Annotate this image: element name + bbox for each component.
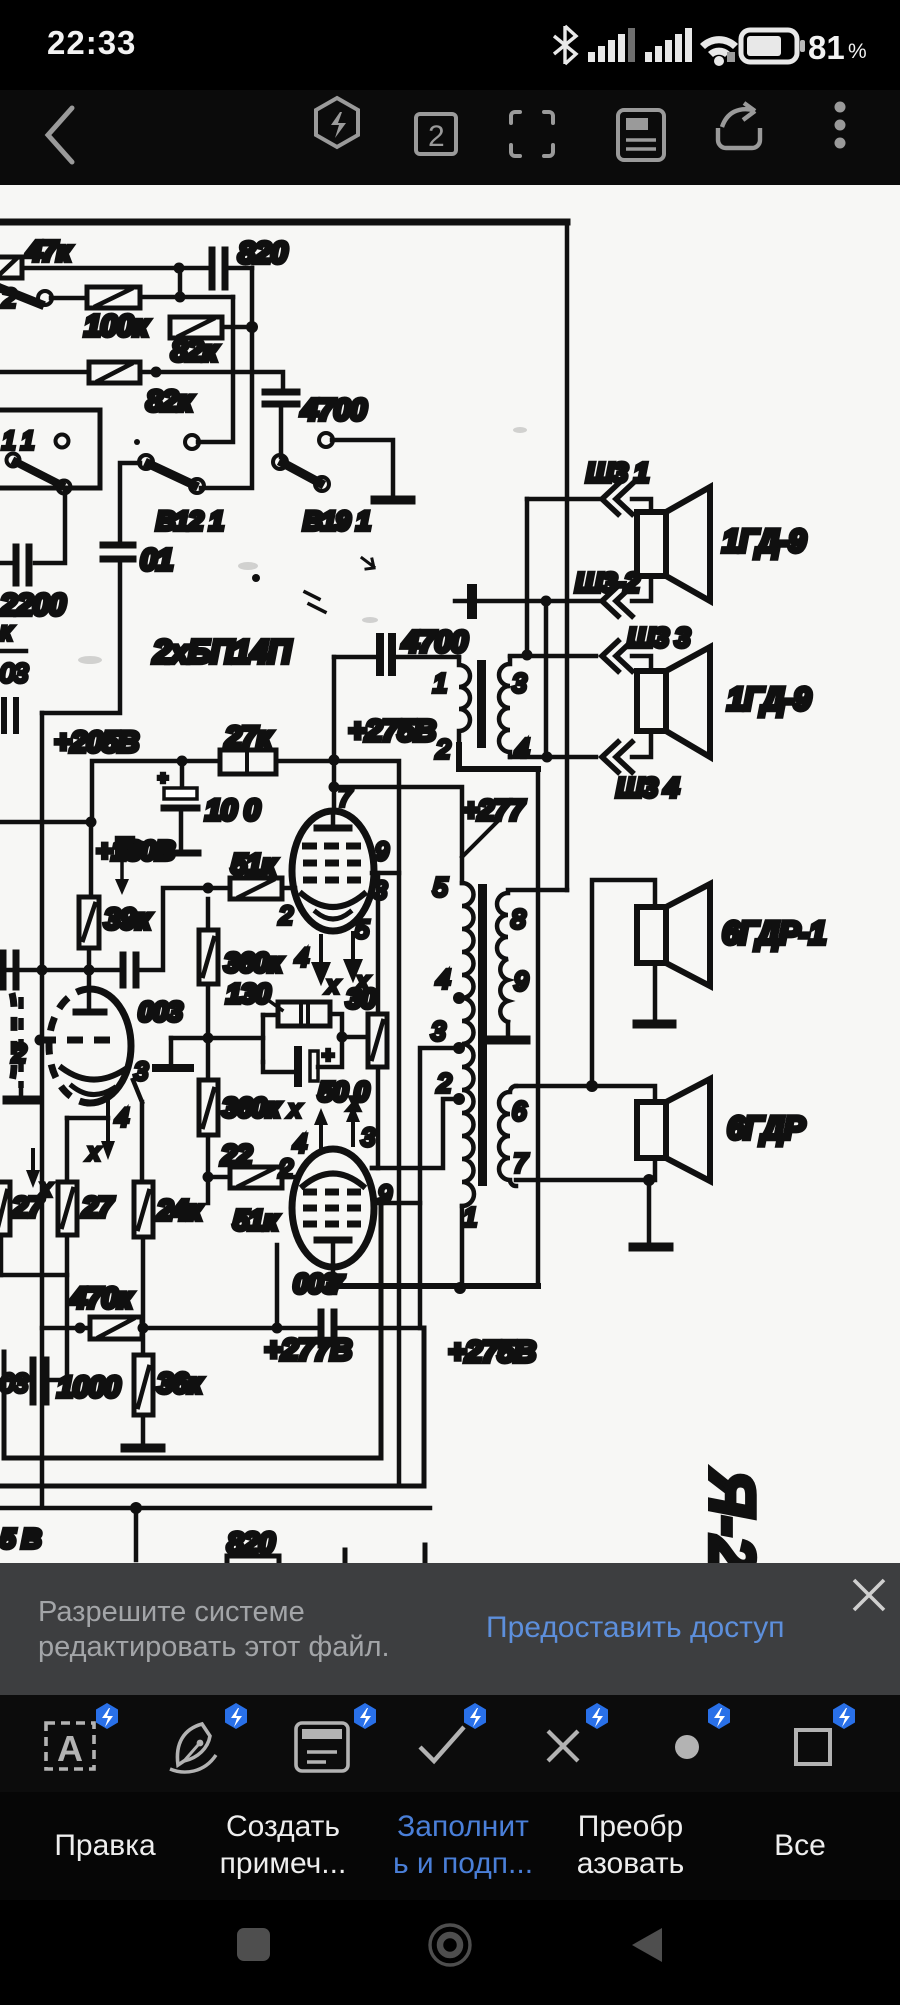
wire pin9 V2 <box>375 1201 420 1206</box>
wire B12 to C01 <box>120 463 140 541</box>
svg-text:5 В: 5 В <box>0 1523 41 1554</box>
svg-text:3: 3 <box>431 1016 446 1046</box>
svg-text:x: x <box>288 1096 302 1122</box>
node junction <box>174 263 185 274</box>
wire link 268-297 <box>178 268 183 297</box>
svg-text:8: 8 <box>511 904 526 934</box>
wire C100 top <box>180 761 185 789</box>
wire 6 top <box>516 1086 655 1102</box>
resistor R 360k first <box>199 930 218 984</box>
anode bar V1 <box>317 825 349 832</box>
T2 secondary 8-9 <box>497 893 508 1022</box>
svg-text:39к: 39к <box>104 903 152 936</box>
wire to transformer secondary 8 top <box>508 888 567 893</box>
wire 100k to corner <box>140 295 233 300</box>
terminal circle 100k input <box>38 291 52 305</box>
capacitor C 130 trimmer <box>261 1015 266 1062</box>
wire C100 bottom to bar <box>179 808 184 849</box>
svg-text:10 0: 10 0 <box>205 794 261 827</box>
cathode arcs V3 <box>62 1068 124 1080</box>
svg-text:51к: 51к <box>231 849 277 881</box>
capacitor C 100 electrolytic <box>166 790 195 799</box>
wire 39k top <box>89 822 94 897</box>
pointer <box>268 1000 282 1010</box>
capacitor C 820 <box>212 250 225 287</box>
svg-text:2: 2 <box>1 283 17 313</box>
wire 4700b net vertical <box>332 657 337 787</box>
filament arrow V4 <box>31 1150 35 1178</box>
svg-text:470к: 470к <box>69 1282 134 1315</box>
wire C820 right <box>228 266 252 271</box>
wire Sh3-2/4 riser <box>544 601 549 757</box>
svg-text:003: 003 <box>138 996 183 1027</box>
svg-text:4: 4 <box>295 944 308 972</box>
capacitor stub left edge <box>4 700 16 731</box>
svg-text:1 1: 1 1 <box>2 427 34 455</box>
wire 24k bottom <box>141 1237 146 1355</box>
wire V3 filament row <box>67 1116 108 1121</box>
svg-text:2хБП14П: 2хБП14П <box>152 633 293 670</box>
wire stub left edge <box>0 649 26 654</box>
svg-text:x: x <box>87 1139 101 1165</box>
svg-text:Я-2: Я-2 <box>696 1468 768 1563</box>
wire bottom bus <box>330 1283 538 1289</box>
switch lever top-left <box>0 288 40 304</box>
svg-text:27: 27 <box>81 1192 115 1224</box>
svg-text:5: 5 <box>433 872 448 902</box>
wire 27 bottom row <box>0 1235 67 1275</box>
wire long vertical continues <box>397 1286 402 1486</box>
svg-text:130: 130 <box>226 978 271 1009</box>
pointer arrow <box>120 862 124 884</box>
wire 6GDR-1 loop <box>592 880 655 1086</box>
svg-text:4700: 4700 <box>300 392 367 427</box>
output transformer T2 primary <box>462 883 474 1206</box>
svg-text:1: 1 <box>433 668 446 698</box>
tube V4 half cut <box>11 993 14 1085</box>
node pin7 <box>329 782 340 793</box>
wire 82k lower net <box>0 370 89 375</box>
svg-text:Ш3 3: Ш3 3 <box>627 622 691 653</box>
ground <box>375 496 411 505</box>
resistor R 27k <box>220 750 276 774</box>
wire V3 anode up <box>87 970 92 1012</box>
node <box>329 755 340 766</box>
svg-text:50 0: 50 0 <box>318 1076 370 1107</box>
wire T1 primary bottom <box>459 745 538 769</box>
grid dashed V3 <box>40 1037 118 1044</box>
terminal circle to ground <box>319 433 333 447</box>
svg-text:+275В: +275В <box>348 713 436 748</box>
cathode arc V2 <box>303 1174 363 1187</box>
resistor R 39k <box>79 897 99 948</box>
svg-text:4: 4 <box>293 1130 306 1158</box>
svg-text:6ГДР-1: 6ГДР-1 <box>722 915 826 951</box>
svg-text:82к: 82к <box>171 335 219 368</box>
wire T1 sec top to Sh3-3 <box>510 654 596 659</box>
resistor R 30 <box>368 1014 387 1067</box>
svg-text:3: 3 <box>361 1124 375 1152</box>
wire top bus <box>0 219 567 226</box>
svg-text:2: 2 <box>436 1068 452 1098</box>
pin 7 line V1 <box>333 787 334 828</box>
svg-text:2: 2 <box>428 120 445 153</box>
svg-text:2: 2 <box>435 734 451 764</box>
svg-text:+275В: +275В <box>448 1334 536 1369</box>
wire RC left node <box>171 1036 263 1041</box>
wire LS4 node to ground <box>647 1180 652 1243</box>
speaker LS2 1GD-9 <box>637 671 666 731</box>
filament arrows V2 <box>321 1113 353 1148</box>
svg-text:В12 1: В12 1 <box>156 506 223 536</box>
wire 36k to ground <box>141 1415 146 1444</box>
ground T2 sec <box>490 1036 526 1045</box>
wire 9 to ground <box>506 1022 511 1036</box>
tube V2 output pentode <box>292 1149 374 1267</box>
node C100 <box>177 756 188 767</box>
svg-text:5: 5 <box>355 916 369 944</box>
speaker LS3 6GDR-1 <box>637 907 666 963</box>
svg-text:%: % <box>848 40 867 63</box>
svg-text:82к: 82к <box>146 385 194 418</box>
resistor R 27 second <box>58 1182 77 1235</box>
wire 39k bottom <box>87 948 92 970</box>
connector Sh3 1 <box>527 497 600 502</box>
wire 27k right <box>276 759 334 764</box>
capacitor C 01 <box>103 545 133 559</box>
svg-text:6: 6 <box>512 1096 527 1126</box>
svg-text:+: + <box>158 770 167 787</box>
anode bar V3 <box>76 1009 104 1016</box>
T2 secondary 6-7 <box>499 1086 516 1186</box>
resistor R 82k upper <box>170 317 222 338</box>
wire C4700 to B19 <box>279 407 284 457</box>
T2 primary taps <box>453 992 465 1004</box>
svg-text:Ш3 1: Ш3 1 <box>586 457 649 488</box>
svg-text:Ш3-2: Ш3-2 <box>575 567 640 598</box>
svg-text:2: 2 <box>278 1155 293 1183</box>
chassis box bottom <box>4 1200 381 1458</box>
wire LS3 to ground <box>653 963 658 1020</box>
wire tap2 to V2 grid circuit <box>420 1048 459 1328</box>
wire V2 pin7 to bus <box>331 1240 336 1286</box>
connector Sh3 3 <box>602 641 632 671</box>
wire T1 sec bottom to Sh3-4 <box>510 755 596 760</box>
wire left bus vertical <box>40 713 45 1506</box>
resistor R 51k <box>230 878 282 899</box>
svg-text:A: A <box>57 1728 83 1769</box>
wire right vertical from top bus <box>565 222 570 890</box>
svg-text:360к: 360к <box>222 1092 282 1123</box>
svg-text:4: 4 <box>436 964 450 994</box>
filament arrow V3 <box>106 1096 110 1130</box>
svg-text:4700: 4700 <box>401 624 468 659</box>
wire 470k net <box>42 1326 90 1331</box>
svg-text:7: 7 <box>513 1148 529 1178</box>
svg-text:360к: 360к <box>224 947 284 978</box>
svg-text:x: x <box>326 972 340 998</box>
T2 core <box>478 884 487 1186</box>
svg-text:+205В: +205В <box>54 726 139 759</box>
wire C01 down to left bus <box>42 562 120 713</box>
capacitor C 003 <box>123 955 136 985</box>
T1 secondary <box>499 657 510 757</box>
T1 core <box>477 660 486 748</box>
svg-text:1ГД-9: 1ГД-9 <box>727 681 811 717</box>
svg-text:820: 820 <box>238 235 287 270</box>
wire to resistor 100k <box>51 296 87 301</box>
node <box>175 292 186 303</box>
svg-text:30: 30 <box>346 983 377 1014</box>
resistor R 47k (cut at left edge) <box>0 257 22 278</box>
wire Sh3-1 riser <box>525 499 530 655</box>
wire 47k to C820 <box>22 266 208 271</box>
capacitor C 4700 second <box>334 655 375 660</box>
resistor R 100k <box>87 287 140 308</box>
node on vertical <box>246 321 258 333</box>
node <box>151 367 162 378</box>
interstage transformer T1 primary <box>459 657 470 745</box>
capacitor C 4700 coupling <box>265 392 297 404</box>
wire 360k-1 <box>206 899 211 1080</box>
wire 82k upper to node <box>222 325 252 330</box>
wire +205V rail <box>0 761 220 822</box>
svg-text:003: 003 <box>293 1268 338 1299</box>
wire V1 anode right <box>372 871 399 876</box>
speaker LS1 1GD-9 <box>637 512 666 576</box>
capacitor C 003 second <box>321 1312 334 1345</box>
svg-text:+: + <box>322 1045 333 1067</box>
noise specks <box>134 439 140 445</box>
resistor 820 bottom cut <box>227 1556 279 1576</box>
terminal circle in box <box>56 435 69 448</box>
connector Sh3 4 <box>602 742 632 772</box>
svg-text:Ш3 4: Ш3 4 <box>616 772 680 803</box>
resistor R 51k second <box>230 1167 282 1188</box>
resistor R 36k <box>134 1355 153 1415</box>
wire terminal to ground <box>332 440 393 496</box>
wire T2 primary bottom <box>460 1206 465 1286</box>
ground RC <box>169 1038 174 1064</box>
svg-text:01: 01 <box>140 542 172 577</box>
wire V2 anode <box>372 1166 378 1171</box>
svg-text:+277В: +277В <box>264 1332 352 1367</box>
svg-text:1ГД-9: 1ГД-9 <box>722 523 806 559</box>
switch box B1 <box>0 410 100 488</box>
scan smudges <box>78 427 527 664</box>
resistor R 24k <box>134 1182 153 1237</box>
ac line y970 <box>0 888 230 970</box>
speaker LS4 6GDR <box>637 1102 666 1158</box>
bottom edge marks <box>345 1545 425 1563</box>
capacitor C 500 electrolytic <box>263 1062 294 1072</box>
svg-text:03: 03 <box>0 658 28 688</box>
svg-text:100к: 100к <box>84 308 150 343</box>
node <box>84 965 95 976</box>
grid dashes V2 <box>303 1192 361 1224</box>
tube V3 triode half <box>90 989 131 1103</box>
stub above node <box>275 1245 280 1328</box>
svg-text:27к: 27к <box>224 721 273 754</box>
svg-text:51к: 51к <box>233 1205 279 1237</box>
anode bar V2 <box>317 1237 349 1244</box>
wire 51k to tube <box>282 886 295 891</box>
svg-text:В19 1: В19 1 <box>303 506 370 536</box>
switch lever in box <box>7 454 20 467</box>
svg-text:27: 27 <box>11 1192 45 1224</box>
wire corner down to terminal <box>198 297 233 442</box>
resistor R 27 left cut <box>0 1182 10 1235</box>
svg-text:4: 4 <box>115 1104 128 1132</box>
wire R30 top/bottom <box>376 873 381 1168</box>
cathode arc V1 <box>302 894 364 907</box>
connector Sh3-2 <box>455 599 467 604</box>
wire tap3 to V2 anode <box>372 1099 459 1168</box>
grid dashes V1 <box>302 846 361 880</box>
wire 82k lower to C4700 <box>140 372 283 390</box>
terminal circle <box>185 435 199 449</box>
svg-text:36к: 36к <box>157 1368 203 1400</box>
switch B12 1 <box>139 455 153 469</box>
svg-text:1: 1 <box>463 1202 476 1232</box>
switch B19 1 <box>273 455 287 469</box>
resistor R 360k second <box>199 1080 218 1135</box>
wire 360k-2 to 51k-2 <box>206 1135 211 1203</box>
wire V3 pin3 to 24k <box>133 1080 142 1182</box>
svg-text:47к: 47к <box>25 236 72 268</box>
wire 7 bottom <box>516 1158 655 1180</box>
node <box>86 817 97 828</box>
wire to long vertical <box>334 761 399 1286</box>
wire right feed vertical <box>536 769 541 1286</box>
node RC right <box>337 1032 348 1043</box>
filament arrows V1 <box>314 933 360 981</box>
wire box to C2200 <box>35 488 65 563</box>
wire bottom rail <box>0 1506 430 1511</box>
wire vertical to B12 <box>201 268 252 488</box>
svg-text:3: 3 <box>512 668 527 698</box>
svg-text:81: 81 <box>808 29 845 66</box>
svg-text:24к: 24к <box>156 1195 203 1227</box>
svg-text:2: 2 <box>278 902 293 930</box>
capacitor C 03 left edge <box>3 953 16 987</box>
capacitor C 2200 <box>16 547 29 583</box>
resistor R 82k lower <box>89 362 140 383</box>
svg-text:6ГДР: 6ГДР <box>727 1110 806 1146</box>
svg-text:9: 9 <box>375 838 389 866</box>
wire pin7 feed <box>334 787 462 883</box>
ground V4 <box>19 1088 24 1096</box>
pointer line <box>462 822 497 857</box>
tube V1 output pentode <box>292 811 374 931</box>
resistor R 470k <box>90 1317 142 1339</box>
svg-text:9: 9 <box>514 966 528 996</box>
